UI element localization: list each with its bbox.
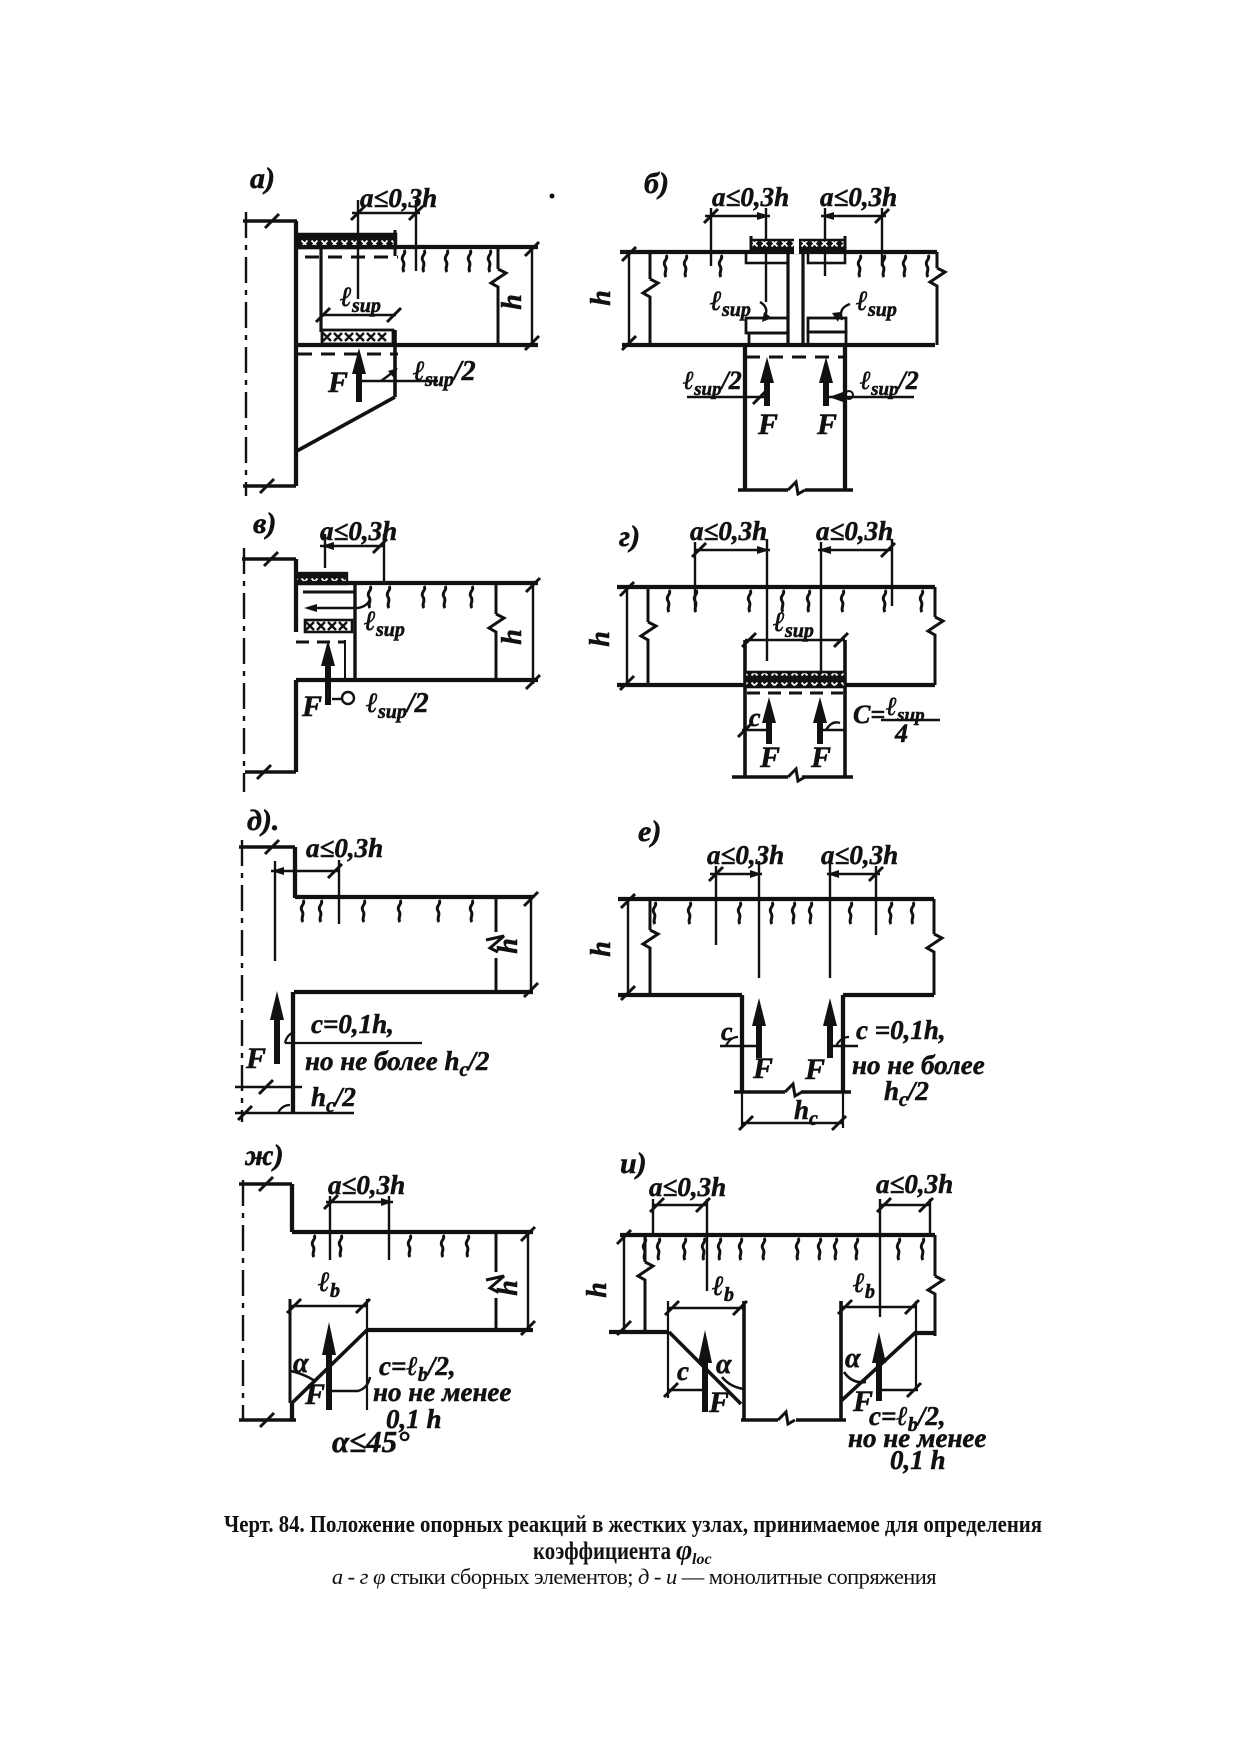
lsup/2 dim line with hook — [332, 698, 341, 700]
column left face — [743, 345, 747, 490]
h dimension line — [531, 247, 533, 345]
h dimension line — [530, 897, 532, 992]
h dimension line — [532, 583, 534, 684]
corbel edge — [393, 330, 397, 397]
svg-text:F: F — [810, 741, 831, 774]
lsup dimension line — [745, 639, 845, 641]
corbel left edge — [289, 1299, 292, 1403]
left sub plate — [746, 252, 788, 263]
svg-text:c: c — [677, 1356, 689, 1386]
slab top chord — [620, 250, 937, 254]
svg-text:ℓsup: ℓsup — [709, 286, 751, 321]
column right face — [843, 640, 847, 777]
column left face — [743, 640, 747, 777]
svg-text:a≤0,3h: a≤0,3h — [306, 833, 383, 863]
svg-text:и): и) — [620, 1147, 647, 1180]
c leader line with hook — [332, 1377, 370, 1391]
right dim a line — [827, 873, 880, 875]
lsup left leader hook — [760, 302, 766, 318]
left haunch tip extension — [667, 1301, 669, 1398]
column right face — [839, 1301, 843, 1420]
dim a line — [326, 1201, 393, 1203]
svg-text:ℓb: ℓb — [317, 1267, 340, 1302]
svg-text:F: F — [757, 408, 778, 441]
beam break edge with zigzag — [495, 1232, 498, 1330]
svg-text:ж): ж) — [244, 1139, 284, 1172]
wall face upper — [293, 847, 297, 898]
h dimension line — [623, 1235, 625, 1330]
bracket bottom dashed line — [296, 641, 346, 644]
bearing plate (hatched) on corbel — [322, 330, 393, 344]
svg-text:a≤0,3h: a≤0,3h — [360, 183, 437, 213]
force F arrow right — [827, 1026, 833, 1058]
column centerline — [245, 212, 247, 496]
dashed line under beam soffit — [298, 353, 398, 356]
top embedded plate (dark) — [751, 240, 845, 252]
bracket shelf line — [303, 591, 356, 594]
concrete break squiggles — [402, 250, 405, 272]
svg-text:F: F — [245, 1042, 266, 1075]
beam top chord — [296, 245, 538, 249]
wall centerline — [243, 548, 245, 792]
svg-text:α: α — [716, 1349, 732, 1380]
svg-text:б): б) — [644, 167, 669, 200]
slab squiggles — [643, 1238, 646, 1260]
beam end joint line — [319, 248, 322, 332]
svg-text:a≤0,3h: a≤0,3h — [821, 840, 898, 870]
h dimension line — [627, 899, 629, 995]
lsup/2 right dim line — [829, 396, 914, 398]
h dimension line — [628, 252, 630, 345]
c right dim line with hook — [830, 1045, 858, 1047]
lsup leader arrow — [308, 599, 370, 608]
svg-text:hc/2: hc/2 — [884, 1076, 929, 1111]
left haunch slant — [669, 1332, 741, 1404]
hc dimension line — [742, 1093, 843, 1128]
beam bottom chord — [296, 343, 538, 347]
svg-text:c =0,1h,: c =0,1h, — [856, 1015, 946, 1045]
svg-text:a≤0,3h: a≤0,3h — [690, 516, 767, 546]
right force F arrow — [876, 1360, 882, 1401]
svg-text:F: F — [301, 690, 322, 723]
slab left break edge — [644, 1235, 647, 1332]
column bottom break line — [734, 1090, 851, 1093]
svg-text:F: F — [304, 1378, 325, 1411]
lsup/2 left dim line — [687, 396, 764, 398]
wall face bottom — [290, 1403, 294, 1420]
beam end edge — [353, 584, 356, 680]
slab bottom chord left — [618, 993, 742, 997]
svg-text:hc: hc — [794, 1095, 818, 1130]
svg-text:C=: C= — [853, 700, 885, 729]
column bottom break line — [741, 1418, 846, 1421]
embedded plate top (hatched) — [296, 573, 347, 584]
dim a line — [352, 212, 420, 214]
slab top chord — [617, 585, 935, 589]
svg-text:hc/2: hc/2 — [311, 1082, 356, 1117]
slab top chord — [620, 1233, 935, 1237]
right sub plate — [808, 252, 845, 263]
left lb dimension line — [668, 1307, 744, 1309]
left c dim line — [667, 1389, 705, 1391]
c left dim line with hook — [720, 1045, 759, 1047]
beam bottom chord — [296, 678, 538, 682]
svg-text:α≤45°: α≤45° — [332, 1424, 410, 1459]
beam break edge with zigzag — [495, 897, 498, 992]
column left face — [740, 995, 744, 1093]
stray ink dot — [550, 194, 555, 199]
corbel slant — [295, 397, 395, 452]
joint gap lines — [786, 252, 789, 345]
svg-text:а - г φ стыки сборных элементо: а - г φ стыки сборных элементов; д - и —… — [332, 1564, 936, 1589]
force F arrow — [356, 370, 362, 402]
svg-text:c: c — [721, 1017, 733, 1046]
column face — [294, 221, 298, 486]
force F arrow — [325, 666, 331, 705]
column top edge line — [243, 219, 297, 222]
column left face — [742, 1301, 746, 1420]
svg-text:ℓb: ℓb — [852, 1268, 875, 1303]
column right face — [843, 345, 847, 490]
slab bottom chord left — [617, 683, 746, 687]
wall top edge line — [242, 557, 296, 560]
corbel slant — [292, 1330, 367, 1403]
svg-text:F: F — [708, 1386, 729, 1419]
svg-text:a≤0,3h: a≤0,3h — [328, 1170, 405, 1200]
lsup dimension line — [323, 314, 396, 316]
slab right break edge — [933, 899, 936, 995]
left dim a line — [705, 215, 770, 217]
svg-text:h: h — [582, 1282, 613, 1298]
left dim a line — [653, 1204, 707, 1206]
left alpha arc — [722, 1377, 744, 1389]
force F arrow right — [817, 720, 823, 744]
svg-text:е): е) — [638, 815, 661, 848]
dim a extension lines — [357, 200, 359, 299]
slab bottom chord — [622, 343, 935, 347]
wall top edge line — [239, 845, 295, 848]
column bottom break line — [738, 488, 853, 491]
force F arrow — [326, 1352, 332, 1410]
slab right break edge — [936, 252, 939, 345]
embedded plate (top, hatched) — [299, 234, 396, 248]
svg-text:0,1 h: 0,1 h — [890, 1445, 946, 1475]
beam top chord — [295, 895, 533, 899]
wall face upper — [290, 1184, 294, 1232]
svg-text:ℓsup: ℓsup — [855, 286, 897, 321]
right bearing plates — [808, 318, 846, 332]
left force F arrow — [702, 1360, 708, 1412]
svg-text:a≤0,3h: a≤0,3h — [820, 182, 897, 212]
slab bottom chord right — [843, 993, 934, 997]
corbel tip extension line — [366, 1299, 368, 1410]
column right face — [841, 995, 845, 1093]
tick on top edge — [265, 214, 279, 228]
slab left break edge — [649, 252, 652, 345]
svg-text:ℓsup: ℓsup — [363, 606, 405, 641]
right lb dimension line — [841, 1306, 916, 1308]
svg-text:h: h — [586, 290, 617, 306]
svg-text:Черт. 84. Положение опорных ре: Черт. 84. Положение опорных реакций в же… — [224, 1512, 1042, 1538]
beam top chord — [292, 1230, 533, 1234]
svg-text:h: h — [586, 941, 617, 957]
force F arrow left — [766, 720, 772, 744]
dashed joint line under plate — [305, 256, 398, 259]
slab left break edge — [647, 587, 650, 685]
bearing plate on bracket (hatched) — [305, 620, 352, 632]
right dim a line — [818, 549, 892, 551]
slab right break edge — [934, 1235, 937, 1336]
svg-text:h: h — [497, 294, 528, 310]
wall centerline — [242, 1180, 244, 1420]
lsup/2 leader line — [360, 380, 438, 382]
column bottom edge line — [243, 484, 296, 487]
svg-text:a≤0,3h: a≤0,3h — [707, 840, 784, 870]
concrete squiggles — [368, 586, 371, 608]
svg-text:a≤0,3h: a≤0,3h — [816, 516, 893, 546]
svg-text:F: F — [804, 1053, 825, 1086]
force F arrow left — [756, 1026, 762, 1058]
svg-text:4: 4 — [894, 719, 908, 748]
svg-text:но не более hc/2: но не более hc/2 — [305, 1046, 489, 1081]
bearing plate (dark hatched) — [745, 672, 845, 687]
force F arrow left — [764, 378, 770, 406]
c left dim line — [742, 729, 769, 731]
h dimension line — [527, 1232, 529, 1330]
force F arrow — [274, 1016, 280, 1064]
svg-text:F: F — [759, 741, 780, 774]
svg-text:ℓsup: ℓsup — [339, 282, 381, 317]
right haunch slant — [841, 1332, 916, 1401]
lb dimension line — [290, 1305, 367, 1307]
wall bottom edge line — [245, 770, 296, 773]
slab squiggles — [664, 255, 667, 277]
slab bottom chord right — [916, 1331, 935, 1335]
svg-text:a≤0,3h: a≤0,3h — [712, 182, 789, 212]
svg-text:φ: φ — [676, 1535, 692, 1566]
right haunch tip extension — [915, 1301, 917, 1391]
wall face upper — [294, 559, 298, 632]
svg-text:F: F — [816, 408, 837, 441]
svg-text:F: F — [752, 1052, 773, 1085]
hc/2 lower dim line with hook — [235, 1112, 354, 1114]
svg-text:a≤0,3h: a≤0,3h — [649, 1172, 726, 1202]
concrete squiggles — [312, 1235, 315, 1257]
svg-text:a≤0,3h: a≤0,3h — [876, 1169, 953, 1199]
hc/2 upper dim line — [235, 1086, 302, 1088]
svg-text:ℓsup/2: ℓsup/2 — [683, 366, 742, 400]
right dim a line — [821, 215, 886, 217]
c right dim line with hook — [820, 729, 845, 731]
lsup right leader hook — [841, 304, 850, 320]
beam bottom chord — [294, 990, 533, 994]
beam bottom chord — [367, 1328, 533, 1332]
c leader line with hook — [285, 1042, 422, 1044]
svg-text:ℓsup/2: ℓsup/2 — [860, 366, 919, 400]
beam break edge with zigzag — [497, 247, 500, 345]
beam top chord — [296, 581, 538, 585]
svg-text:ℓsup/2: ℓsup/2 — [365, 688, 429, 723]
wall top edge line — [239, 1182, 292, 1185]
slab squiggles — [653, 902, 656, 924]
wall centerline — [241, 840, 243, 1122]
svg-text:h: h — [585, 631, 616, 647]
beam break edge with zigzag — [495, 583, 498, 680]
svg-text:в): в) — [253, 507, 276, 540]
slab top chord — [618, 897, 934, 901]
h dimension line — [626, 587, 628, 685]
left bearing plates — [746, 318, 788, 333]
svg-text:д).: д). — [247, 804, 279, 837]
svg-text:а): а) — [250, 162, 275, 195]
svg-text:c: c — [749, 703, 761, 732]
svg-text:h: h — [493, 938, 524, 954]
svg-text:но не менее: но не менее — [373, 1377, 511, 1407]
right alpha arc — [844, 1372, 866, 1382]
dashed line under plate — [747, 692, 843, 695]
left dim a line — [710, 873, 762, 875]
svg-text:F: F — [327, 366, 348, 399]
force F arrow right — [823, 378, 829, 406]
svg-text:ℓb: ℓb — [711, 1271, 734, 1306]
concrete squiggles — [301, 900, 304, 922]
slab squiggles — [667, 590, 670, 612]
dashed bearing line in column — [746, 356, 844, 359]
svg-text:коэффициента: коэффициента — [533, 1538, 671, 1565]
alpha arc — [291, 1371, 316, 1382]
svg-text:г): г) — [619, 520, 640, 553]
left dim a line — [695, 549, 770, 551]
column face below — [291, 992, 295, 1114]
svg-text:α: α — [845, 1343, 861, 1374]
slab bottom chord right — [845, 683, 935, 687]
svg-text:ℓsup/2: ℓsup/2 — [412, 356, 476, 391]
right dim a line — [880, 1204, 930, 1206]
wall face lower — [294, 680, 298, 772]
wall bottom edge line — [239, 1418, 296, 1421]
dim a line — [320, 545, 384, 547]
svg-text:h: h — [493, 1280, 524, 1296]
svg-text:h: h — [497, 629, 528, 645]
slab left break edge — [649, 899, 652, 995]
slab right break edge — [934, 587, 937, 685]
column bottom break line — [732, 775, 853, 778]
dim a line — [271, 870, 339, 872]
svg-text:c=0,1h,: c=0,1h, — [311, 1009, 394, 1039]
right c dim line — [881, 1389, 918, 1391]
slab bottom chord left — [609, 1330, 669, 1334]
